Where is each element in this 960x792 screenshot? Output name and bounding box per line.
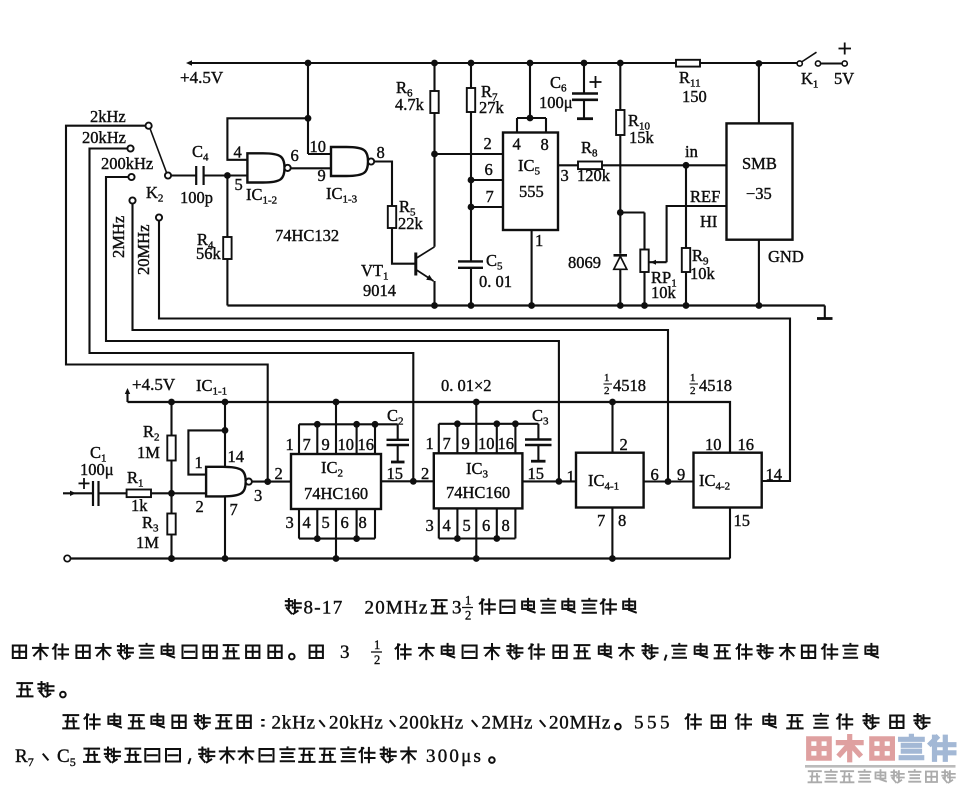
p2l1 dun1 — [320, 721, 324, 726]
wire 20MHz from contact to IC4-2 pin 14 — [159, 221, 790, 481]
switch K2 contact 20MHz — [156, 214, 162, 220]
svg-text:5: 5 — [322, 513, 330, 532]
svg-text:+4.5V: +4.5V — [180, 68, 224, 87]
svg-text:3: 3 — [452, 598, 462, 619]
+4.5V bus arrow — [126, 391, 128, 402]
svg-text:16: 16 — [498, 434, 515, 453]
svg-text:200kHz: 200kHz — [101, 154, 153, 173]
p2l2 juhao — [489, 757, 495, 763]
label 1/2 4518 (first) — [604, 372, 647, 397]
svg-text:2: 2 — [690, 385, 696, 397]
svg-text:1: 1 — [374, 638, 380, 652]
junction R1/R2/R3 — [168, 490, 175, 497]
svg-text:200kHz: 200kHz — [399, 713, 464, 734]
wire K2 pole to C4 — [171, 174, 196, 176]
svg-text:555: 555 — [634, 713, 673, 734]
svg-text:4: 4 — [513, 135, 521, 154]
svg-text:9014: 9014 — [363, 281, 396, 300]
IC2 pin stubs bottom — [298, 509, 300, 539]
svg-text:4: 4 — [303, 513, 311, 532]
svg-text:4518: 4518 — [613, 376, 646, 395]
IC U3: IC2 74HC160 box — [291, 454, 381, 509]
svg-text:20kHz: 20kHz — [329, 713, 384, 734]
IC2 top pin rail — [299, 423, 398, 425]
svg-text:1: 1 — [535, 231, 543, 250]
svg-text:15k: 15k — [629, 128, 655, 147]
plus sign 5V supply — [839, 48, 852, 50]
svg-text:1M: 1M — [136, 533, 159, 552]
wire IC1-1 pin 7 to ground rail — [224, 496, 226, 558]
svg-text:8: 8 — [541, 135, 549, 154]
svg-text:6: 6 — [482, 516, 490, 535]
svg-text:9: 9 — [462, 434, 470, 453]
svg-text:3: 3 — [426, 516, 434, 535]
svg-text:5V: 5V — [834, 69, 854, 88]
svg-text:2: 2 — [465, 609, 471, 623]
junction R10/zener/RP1 — [617, 209, 624, 216]
caption CJK: tu — [286, 599, 301, 614]
caption CJK: wei shuzi pinlvji dianlu — [480, 599, 495, 613]
svg-text:9: 9 — [318, 166, 326, 185]
zener diode 8069 — [614, 254, 628, 257]
svg-text:14: 14 — [766, 465, 783, 484]
input terminal arrow — [63, 492, 93, 494]
svg-text:555: 555 — [519, 182, 544, 201]
svg-text:20MHz: 20MHz — [134, 225, 153, 275]
p1l1 CJK b1 — [396, 644, 411, 658]
svg-text:1: 1 — [604, 372, 610, 384]
junction C4/R4/pin5 — [224, 172, 231, 179]
p2l1 dun3 — [472, 721, 476, 726]
junction 2MHz tap — [665, 478, 672, 485]
p2l1 colon — [262, 720, 263, 726]
junction in node — [683, 162, 690, 169]
IC3 bottom pin rail — [439, 537, 516, 539]
svg-text:7: 7 — [443, 434, 451, 453]
resistor R3 — [170, 493, 172, 513]
p2l2 comma — [189, 759, 190, 763]
switch K2 contact 200kHz — [128, 174, 134, 180]
svg-text:1: 1 — [426, 434, 434, 453]
svg-text:56k: 56k — [196, 244, 222, 263]
potentiometer RP1 — [620, 211, 644, 213]
wire IC4-2 pin 15 to ground rail — [729, 508, 731, 559]
wire 2MHz from contact to bus — [133, 204, 669, 482]
wire 555 pin 1 to ground rail — [531, 230, 533, 306]
switch K2 blade — [150, 129, 167, 173]
svg-text:15: 15 — [734, 511, 751, 530]
resistor R8 — [578, 162, 602, 170]
svg-text:3: 3 — [561, 166, 569, 185]
svg-text:15: 15 — [387, 464, 404, 483]
wire trigger node to 555 pin 2 — [435, 153, 504, 155]
svg-text:2: 2 — [484, 134, 492, 153]
svg-text:3: 3 — [340, 642, 350, 663]
svg-text:9: 9 — [677, 465, 685, 484]
svg-text:−35: −35 — [746, 184, 772, 203]
resistor R2 — [170, 402, 172, 436]
svg-text:6: 6 — [291, 146, 299, 165]
wire 2kHz from contact to bus — [66, 126, 268, 482]
switch K1 — [797, 61, 802, 66]
svg-text:SMB: SMB — [742, 154, 777, 173]
svg-text:7: 7 — [486, 187, 494, 206]
svg-text:2: 2 — [275, 464, 283, 483]
wire +4.5V to NAND gates pin10 — [307, 63, 309, 154]
IC U1: 555 timer IC5 box — [503, 133, 558, 231]
resistor R4 — [226, 176, 228, 238]
junction 200kHz tap — [556, 478, 563, 485]
wire C1 to R1 — [99, 492, 127, 494]
ground rail (bottom section) — [64, 555, 70, 561]
svg-text:2: 2 — [196, 497, 204, 516]
wire R1 to IC1-1 pin 2 — [151, 492, 206, 494]
ground rail of timer section — [227, 304, 824, 306]
svg-text:1: 1 — [465, 594, 471, 608]
svg-text:10: 10 — [310, 137, 327, 156]
switch K2 contact 20kHz — [127, 145, 133, 151]
IC3 pin stubs top — [438, 424, 440, 454]
+4.5V power rail (top) — [191, 62, 676, 64]
wire IC1-1 out to IC2 pin 2 — [252, 481, 291, 483]
wire RP1 wiper to SMB REF/HI — [667, 206, 727, 262]
svg-text:3: 3 — [254, 486, 262, 505]
IC2 pin stubs top — [298, 424, 300, 454]
label 1/2 4518 (second) — [690, 372, 733, 397]
p2l2 dun — [43, 754, 47, 759]
wire IC3 pin 15 to IC4-1 pin 1 — [522, 480, 576, 482]
svg-text:4518: 4518 — [699, 376, 732, 395]
svg-text:20MHz: 20MHz — [365, 598, 429, 619]
wire 200kHz from contact to bus — [106, 177, 559, 481]
p1l1 CJK b2 — [672, 644, 686, 658]
p2l2 CJK a — [84, 749, 100, 762]
switch K2 pole — [165, 172, 171, 178]
IC U2: SMB-35 DVM module box — [727, 123, 793, 239]
resistor R5 — [388, 206, 396, 228]
wire IC4-1 pins 7/8 to ground rail — [611, 508, 613, 559]
resistor R10 — [616, 110, 624, 135]
wire rail to SMB top — [758, 64, 760, 124]
p2l1 CJK b — [686, 714, 701, 728]
svg-text:0. 01×2: 0. 01×2 — [441, 376, 492, 395]
svg-text:8: 8 — [377, 143, 385, 162]
capacitor C2 — [397, 424, 399, 440]
svg-text:2: 2 — [374, 653, 380, 667]
svg-text:15: 15 — [528, 464, 545, 483]
svg-text:20kHz: 20kHz — [82, 128, 126, 147]
p2l2 CJK b — [199, 748, 214, 763]
wire to 555 pin 7 — [471, 206, 503, 208]
svg-text:300μs: 300μs — [426, 746, 483, 767]
RP1 wiper — [649, 261, 667, 263]
svg-text:6: 6 — [341, 513, 349, 532]
svg-text:27k: 27k — [479, 98, 505, 117]
svg-text:10: 10 — [478, 434, 495, 453]
svg-text:16: 16 — [738, 435, 755, 454]
junction 2kHz tap — [264, 478, 271, 485]
wire R8 to SMB in — [602, 164, 727, 166]
switch K2 contact 2kHz — [146, 123, 152, 129]
resistor R1 — [127, 490, 151, 498]
transistor VT1 9014 — [414, 253, 417, 276]
svg-text:74HC160: 74HC160 — [304, 484, 368, 503]
IC3 top pin rail — [439, 423, 539, 425]
svg-text:GND: GND — [768, 247, 804, 266]
svg-text:+4.5V: +4.5V — [132, 375, 176, 394]
junction collector/pin2 node — [431, 151, 438, 158]
capacitor C3 — [537, 424, 539, 440]
plus sign C1 — [79, 482, 90, 484]
wire +4.5V to IC1-1 pin 14 — [224, 402, 226, 467]
svg-text:4: 4 — [443, 516, 451, 535]
svg-text:2kHz: 2kHz — [272, 713, 316, 734]
plus sign C6 — [590, 81, 602, 83]
ground symbol — [824, 306, 826, 319]
capacitor C6 (electrolytic) — [583, 63, 585, 94]
IC U5: IC4-1 (1/2 4518) box — [576, 453, 644, 508]
wire 20kHz from contact to bus — [90, 149, 414, 482]
svg-text:7: 7 — [230, 500, 238, 519]
svg-text:1: 1 — [690, 372, 696, 384]
p1l2 CJK — [17, 683, 32, 696]
capacitor C1 (electrolytic input) — [92, 481, 94, 506]
op-amp gate IC1-2 (NAND 74HC132) — [247, 153, 284, 182]
svg-text:1: 1 — [567, 467, 575, 486]
svg-text:74HC132: 74HC132 — [275, 226, 339, 245]
svg-text:150: 150 — [682, 87, 707, 106]
svg-text:1M: 1M — [137, 443, 160, 462]
IC3 pin stubs bottom — [438, 508, 440, 538]
wire VT1 emitter to ground rail — [433, 281, 435, 306]
svg-text:4.7k: 4.7k — [395, 95, 425, 114]
op-amp gate IC1-3 (NAND 74HC132) — [331, 147, 368, 176]
wire IC4-1 pin 6 to IC4-2 pin 9 — [644, 480, 694, 482]
resistor R6 — [430, 91, 438, 113]
wire to 555 pin 6 — [471, 179, 503, 181]
caption CJK: de — [432, 600, 447, 613]
wire 555 pin 3 to R8 — [558, 164, 578, 166]
svg-text:20MHz: 20MHz — [549, 713, 611, 734]
junction R7/pin6 — [468, 177, 475, 184]
svg-text:2: 2 — [620, 435, 628, 454]
svg-text:5: 5 — [235, 175, 243, 194]
svg-text:3: 3 — [286, 513, 294, 532]
junction pin4/pin10 node — [305, 115, 312, 122]
svg-text:10k: 10k — [651, 283, 677, 302]
IC2 bottom pin rail — [299, 538, 375, 540]
svg-text:8-17: 8-17 — [304, 598, 344, 619]
wire VT1 collector to R6 — [433, 113, 435, 247]
svg-text:9: 9 — [322, 435, 330, 454]
svg-text:2: 2 — [421, 464, 429, 483]
svg-text:120k: 120k — [577, 166, 611, 185]
svg-text:100μ: 100μ — [80, 460, 114, 479]
svg-text:7: 7 — [597, 511, 605, 530]
svg-text:8: 8 — [359, 513, 367, 532]
p1l1 CJK a — [13, 646, 26, 659]
wire IC1-3 pin 8 to R5 — [374, 162, 392, 207]
svg-text:2: 2 — [604, 385, 610, 397]
svg-text:0. 01: 0. 01 — [479, 272, 512, 291]
junction rail/SMB supply — [756, 60, 763, 67]
svg-text:2kHz: 2kHz — [90, 107, 126, 126]
svg-text:100μ: 100μ — [539, 93, 573, 112]
IC U4: IC3 74HC160 box — [434, 453, 523, 508]
svg-text:22k: 22k — [398, 214, 424, 233]
IC1-1 pin 1 feedback wire — [188, 430, 225, 474]
wire 555 pins 4+8 to +4.5V — [529, 63, 531, 118]
gate IC1-1 body — [206, 467, 246, 497]
svg-text:2MHz: 2MHz — [109, 216, 128, 258]
wire +4.5V to IC4-1 pin 2 — [611, 402, 613, 453]
svg-text:4: 4 — [234, 143, 242, 162]
wire SMB GND to ground rail — [758, 240, 760, 306]
wire R5 to VT1 base — [392, 228, 415, 264]
resistor R9 — [685, 165, 687, 248]
svg-text:8: 8 — [618, 511, 626, 530]
junction R7/pin7 — [468, 204, 475, 211]
svg-text:8069: 8069 — [568, 253, 601, 272]
svg-text:10: 10 — [705, 435, 722, 454]
p2l1 dun4 — [540, 721, 544, 726]
svg-text:HI: HI — [700, 212, 717, 231]
svg-text:6: 6 — [485, 160, 493, 179]
svg-text:74HC160: 74HC160 — [446, 483, 510, 502]
p2l1 CJK a — [63, 715, 78, 728]
p1l1 comma — [665, 656, 666, 660]
svg-text:10: 10 — [338, 435, 355, 454]
svg-text:14: 14 — [228, 447, 245, 466]
svg-text:1: 1 — [286, 435, 294, 454]
svg-text:100p: 100p — [180, 188, 213, 207]
watermark logo: pei xun (blue) — [901, 736, 923, 757]
p2l1 dun2 — [390, 721, 394, 726]
wire IC1-2 out to IC1-3 pin 9 — [291, 167, 331, 169]
watermark underline — [805, 765, 956, 768]
svg-text:2MHz: 2MHz — [482, 713, 534, 734]
svg-text:1: 1 — [195, 453, 203, 472]
svg-text:REF: REF — [690, 187, 720, 206]
resistor R7 — [467, 88, 475, 112]
svg-text:in: in — [685, 142, 698, 161]
resistor R11 — [676, 60, 700, 67]
wire C4 to IC1-2 pin 5 — [204, 174, 248, 176]
junction rail/gate supply — [305, 60, 312, 67]
wire IC2 pin 15 to IC3 pin 2 — [381, 480, 434, 482]
svg-text:7: 7 — [303, 435, 311, 454]
junction 20kHz tap — [410, 478, 417, 485]
watermark logo: yi di tuo (pink) — [809, 739, 830, 758]
IC U6: IC4-2 (1/2 4518) box — [694, 453, 762, 508]
op rail: IC1-2 pin 4 feedback wire — [227, 118, 308, 160]
watermark tagline: shepin he tianxian sheji zhuanjia (gray) — [809, 771, 822, 782]
p2l1 juhao — [615, 724, 621, 730]
+4.5V bus (bottom section) — [128, 402, 731, 453]
svg-text:10k: 10k — [690, 264, 716, 283]
svg-text:6: 6 — [651, 465, 659, 484]
svg-text:5: 5 — [463, 516, 471, 535]
capacitor C5 — [458, 260, 483, 262]
switch K2 contact 2MHz — [129, 197, 135, 203]
capacitor C4 — [195, 166, 197, 185]
svg-text:8: 8 — [502, 516, 510, 535]
svg-text:16: 16 — [358, 435, 375, 454]
